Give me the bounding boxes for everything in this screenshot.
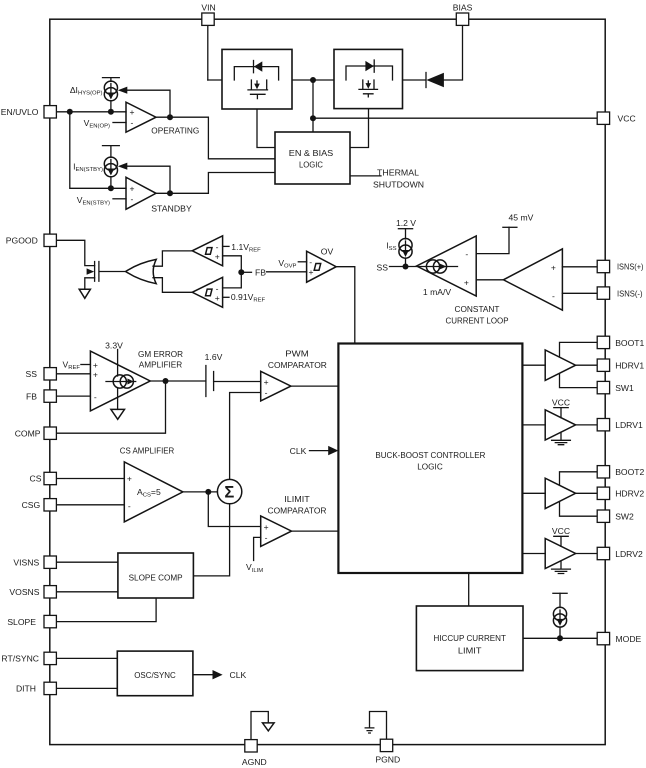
svg-text:CS: CS bbox=[30, 474, 42, 484]
pin COMP bbox=[15, 427, 57, 439]
svg-text:SS: SS bbox=[377, 262, 389, 272]
body diode D2 inside Q2 bbox=[346, 60, 393, 80]
label EN & BIAS LOGIC bbox=[289, 148, 334, 169]
pin BIAS bbox=[453, 3, 473, 26]
svg-text:LOGIC: LOGIC bbox=[417, 461, 443, 471]
pass switch Q1 box bbox=[222, 49, 292, 109]
pin PGND bbox=[375, 739, 400, 764]
wire: SW1 pin to HDRV1 driver bottom bbox=[560, 374, 599, 388]
ground: LDRV1 driver bbox=[552, 432, 571, 444]
svg-text:HICCUP CURRENT: HICCUP CURRENT bbox=[433, 633, 506, 643]
svg-text:ILIMIT: ILIMIT bbox=[284, 494, 310, 504]
svg-text:1 mA/V: 1 mA/V bbox=[423, 287, 451, 297]
wire: pass switch Q2 box to EN & BIAS logic bbox=[350, 109, 369, 148]
svg-text:AGND: AGND bbox=[242, 757, 267, 767]
pin SLOPE bbox=[7, 615, 56, 627]
pin DITH bbox=[16, 682, 56, 694]
label ILIMIT COMPARATOR bbox=[268, 494, 327, 515]
node: VIN/VCC rail junction bbox=[310, 77, 316, 83]
svg-text:COMPARATOR: COMPARATOR bbox=[268, 505, 327, 515]
wire: EN/UVLO pin to OPERATING comparator + input bbox=[56, 111, 126, 113]
wire: standby feedback to I_EN(STBY) source bbox=[127, 166, 171, 193]
node: CS amp output junction bbox=[205, 489, 211, 495]
svg-text:VILIM: VILIM bbox=[246, 562, 263, 574]
svg-text:OPERATING: OPERATING bbox=[151, 126, 199, 136]
block HICCUP CURRENT LIMIT bbox=[416, 606, 523, 671]
svg-text:LOGIC: LOGIC bbox=[299, 160, 323, 170]
svg-text:OV: OV bbox=[321, 246, 334, 256]
svg-text:MODE: MODE bbox=[616, 634, 642, 644]
wire: 45 mV reference into constant current loop - input bbox=[476, 227, 509, 253]
wire: hiccup current limit to MODE pin bbox=[523, 637, 598, 639]
comparator STANDBY bbox=[126, 177, 156, 209]
wire: controller logic to HDRV1 driver input bbox=[522, 364, 545, 366]
supply bar: MODE pull-up source bbox=[553, 592, 567, 594]
pin SS bbox=[26, 368, 57, 380]
svg-text:BUCK-BOOST CONTROLLER: BUCK-BOOST CONTROLLER bbox=[375, 450, 485, 460]
pin MODE bbox=[597, 632, 641, 644]
wire: FB net label to OV comparator + input bbox=[267, 271, 307, 273]
svg-text:VOSNS: VOSNS bbox=[9, 587, 39, 597]
wire: HDRV1 driver output to HDRV1 pin bbox=[576, 364, 599, 366]
svg-text:-: - bbox=[128, 501, 131, 511]
node: SS net junction bbox=[403, 264, 409, 270]
wire: error amp output to 1.6V offset bbox=[150, 380, 206, 382]
pin VCC bbox=[597, 112, 635, 124]
svg-text:VISNS: VISNS bbox=[13, 557, 39, 567]
wire: SS pin to error amp + input bbox=[56, 373, 90, 375]
svg-text:0.91VREF: 0.91VREF bbox=[231, 292, 266, 304]
svg-text:1.6V: 1.6V bbox=[205, 352, 223, 362]
ground: LDRV2 driver bbox=[552, 561, 571, 574]
current source I_SS bbox=[399, 239, 412, 259]
svg-text:COMP: COMP bbox=[15, 429, 41, 439]
wire: controller logic bottom to hiccup current limit bbox=[468, 573, 470, 606]
wire: comparator + input down to FB node bbox=[223, 256, 242, 272]
wire: PGOOD MOSFET gate lead from OR gate bbox=[99, 271, 125, 273]
ground: PGOOD MOSFET source bbox=[79, 289, 90, 298]
svg-text:CSG: CSG bbox=[22, 500, 41, 510]
wire: OR gate lower input from 0.91Vref comparator output bbox=[153, 278, 192, 293]
svg-text:+: + bbox=[130, 184, 135, 194]
ground: AGND analog ground symbol bbox=[263, 723, 275, 731]
MOSFET symbol Q1 bbox=[248, 80, 268, 99]
block EN & BIAS LOGIC bbox=[275, 132, 350, 184]
wire: VIN rail through pass switches to BIAS diode bbox=[208, 79, 426, 81]
svg-text:CURRENT LOOP: CURRENT LOOP bbox=[446, 315, 509, 325]
op-amp U3 CS AMPLIFIER bbox=[124, 462, 183, 522]
svg-text:+: + bbox=[464, 277, 469, 287]
node: standby output junction bbox=[167, 190, 173, 196]
node: VCC branch junction bbox=[310, 115, 316, 121]
svg-text:FB: FB bbox=[255, 267, 266, 277]
wire: 0.91Vref stub on comparator + input bbox=[223, 296, 229, 298]
svg-text:PGND: PGND bbox=[375, 755, 400, 765]
wire: CSG pin to CS amplifier - input bbox=[56, 504, 124, 506]
svg-text:FB: FB bbox=[26, 391, 37, 401]
ground: PGND power ground symbol bbox=[365, 728, 374, 733]
node: operating output junction bbox=[167, 114, 173, 120]
svg-text:ISNS(+): ISNS(+) bbox=[617, 262, 644, 272]
pin CSG bbox=[22, 499, 57, 511]
pin SW1 bbox=[597, 381, 634, 393]
wire: 1.1Vref stub on comparator - input bbox=[223, 245, 229, 247]
svg-text:VEN(STBY): VEN(STBY) bbox=[77, 195, 110, 207]
node: MODE pull-up junction bbox=[557, 635, 563, 641]
label BUCK-BOOST CONTROLLER LOGIC bbox=[375, 450, 485, 472]
svg-text:SS: SS bbox=[26, 369, 38, 379]
buffer driver HDRV2 bbox=[545, 478, 575, 508]
wire: V_EN(OP) stub to OPERATING - input bbox=[113, 122, 126, 124]
svg-text:VCC: VCC bbox=[552, 526, 570, 536]
wire: OV comparator output to controller logic top bbox=[336, 267, 355, 343]
wire: BOOT2 pin to HDRV2 driver top bbox=[560, 472, 599, 485]
wire: PGOOD MOSFET source to ground bbox=[85, 278, 95, 290]
svg-text:ISNS(-): ISNS(-) bbox=[617, 288, 643, 298]
svg-text:CLK: CLK bbox=[230, 670, 247, 680]
svg-text:-: - bbox=[216, 283, 219, 293]
svg-text:THERMAL: THERMAL bbox=[377, 168, 419, 178]
svg-text:LDRV1: LDRV1 bbox=[615, 420, 643, 430]
block OSC/SYNC bbox=[117, 651, 193, 696]
wire: PGND pin hook to power ground symbol bbox=[370, 712, 387, 740]
ground: error amplifier bbox=[111, 409, 125, 419]
current source Delta-I_HYS(OP) bbox=[103, 78, 120, 112]
wire: pass switch Q1 box to EN & BIAS logic bbox=[257, 109, 275, 148]
pin ISNS(+) bbox=[597, 260, 643, 272]
label GM ERROR AMPLIFIER bbox=[138, 349, 183, 370]
wire: LDRV1 driver output to LDRV1 pin bbox=[576, 424, 599, 426]
svg-text:45 mV: 45 mV bbox=[509, 213, 534, 223]
svg-text:LDRV2: LDRV2 bbox=[615, 549, 643, 559]
wire: STANDBY output to EN & BIAS logic bbox=[156, 173, 275, 194]
svg-text:-: - bbox=[131, 194, 134, 204]
wire: CS amp output branch to ILIMIT comparator + input bbox=[208, 492, 260, 527]
arrowhead: OSC/SYNC CLK output bbox=[213, 670, 223, 679]
wire: BOOT1 pin to HDRV1 driver top bbox=[560, 342, 599, 356]
svg-text:SW2: SW2 bbox=[615, 512, 634, 522]
wire: EN/UVLO down-branch to STANDBY comparator + input bbox=[70, 112, 126, 189]
svg-text:+: + bbox=[551, 262, 556, 272]
svg-text:HDRV1: HDRV1 bbox=[615, 361, 644, 371]
pin HDRV2 bbox=[597, 487, 644, 499]
comparator PWM bbox=[261, 371, 291, 401]
wire: VISNS pin to slope comp bbox=[56, 561, 118, 563]
wire: ILIMIT comparator - input to V_ILIM bbox=[254, 537, 261, 560]
pin BOOT1 bbox=[597, 336, 644, 348]
body diode D1 inside Q1 bbox=[234, 61, 278, 81]
wire: OSC/SYNC CLK output bbox=[193, 674, 213, 676]
svg-text:-: - bbox=[94, 392, 97, 402]
wire: PGOOD pin to PGOOD MOSFET drain bbox=[56, 240, 94, 265]
supply bar: 45 mV bbox=[503, 226, 517, 228]
wire: THERMAL SHUTDOWN output from EN & BIAS logic bbox=[350, 175, 381, 177]
svg-text:+: + bbox=[215, 293, 220, 303]
label CONSTANT CURRENT LOOP bbox=[446, 304, 509, 326]
arrowhead: hysteresis feedback into Delta-I source bbox=[118, 87, 128, 94]
label PWM COMPARATOR bbox=[268, 348, 327, 370]
pass switch Q2 box bbox=[334, 49, 403, 108]
svg-text:-: - bbox=[131, 118, 134, 128]
PGOOD open-drain MOSFET Q3 bbox=[87, 262, 99, 282]
wire: CS amplifier output to summer bbox=[183, 491, 218, 493]
pin BOOT2 bbox=[597, 466, 644, 478]
wire: I_SS current source to SS node bbox=[405, 258, 407, 267]
wire: AGND pin hook to analog ground symbol bbox=[251, 712, 268, 740]
wire: 1.6V offset to PWM comparator + input bbox=[214, 381, 261, 383]
label THERMAL SHUTDOWN bbox=[373, 168, 424, 190]
wire: controller logic to LDRV2 driver input bbox=[522, 553, 545, 555]
wire: DITH pin to OSC/SYNC bbox=[56, 687, 117, 689]
label HICCUP CURRENT LIMIT bbox=[433, 633, 506, 655]
current source gm 1 mA/V (constant current loop) bbox=[426, 260, 446, 273]
svg-text:Σ: Σ bbox=[224, 484, 234, 502]
svg-text:CLK: CLK bbox=[290, 446, 307, 456]
summer node (sigma) bbox=[217, 479, 241, 503]
wire: 1.2V supply into I_SS current source bbox=[405, 229, 407, 239]
wire: LDRV2 driver output to LDRV2 pin bbox=[576, 553, 599, 555]
svg-text:GM ERROR: GM ERROR bbox=[138, 349, 183, 359]
supply bar: 1.2 V bbox=[398, 228, 412, 230]
wire: ISNS(-) pin to diff amp - input bbox=[562, 292, 598, 294]
pin RT/SYNC bbox=[1, 652, 56, 664]
svg-text:-: - bbox=[216, 242, 219, 252]
wire: operating hysteresis feedback to current source bbox=[127, 90, 171, 117]
comparator OV bbox=[307, 251, 337, 282]
pin ISNS(-) bbox=[597, 287, 642, 299]
buffer driver HDRV1 bbox=[545, 350, 575, 380]
svg-text:EN/UVLO: EN/UVLO bbox=[1, 107, 39, 117]
comparator ILIMIT bbox=[261, 516, 292, 547]
svg-text:+: + bbox=[127, 474, 132, 484]
svg-text:-: - bbox=[552, 291, 555, 301]
op-amp U4 constant current loop gm amp bbox=[417, 236, 477, 296]
wire: FB pin to error amp - input bbox=[56, 395, 90, 397]
pin AGND bbox=[242, 740, 267, 767]
wire: VOSNS pin to slope comp bbox=[56, 591, 118, 593]
svg-text:SW1: SW1 bbox=[615, 383, 634, 393]
pin LDRV2 bbox=[597, 547, 643, 559]
pin LDRV1 bbox=[597, 419, 643, 431]
op-amp U5 ISNS differential amplifier bbox=[503, 249, 562, 310]
supply wire: 3.3V into error amp current source bbox=[117, 350, 119, 377]
supply VCC for LDRV2 driver bbox=[554, 536, 568, 546]
buffer driver LDRV2 bbox=[545, 538, 575, 568]
svg-text:VEN(OP): VEN(OP) bbox=[84, 118, 110, 130]
svg-text:VOVP: VOVP bbox=[278, 258, 296, 270]
wire: switch-rail junction down to EN & BIAS logic top bbox=[312, 80, 314, 132]
pin SW2 bbox=[597, 510, 634, 522]
wire: V_REF stub to error amp + input bbox=[81, 364, 91, 366]
svg-text:HDRV2: HDRV2 bbox=[615, 489, 644, 499]
current source I_EN(STBY) bbox=[103, 146, 120, 189]
comparator OPERATING bbox=[126, 102, 156, 132]
svg-text:-: - bbox=[265, 388, 268, 398]
svg-text:+: + bbox=[93, 360, 98, 370]
wire: MODE current source supply stem bbox=[559, 593, 561, 607]
svg-text:ACS=5: ACS=5 bbox=[137, 487, 161, 499]
pin EN/UVLO bbox=[1, 106, 57, 118]
current source MODE pull-up bbox=[553, 607, 566, 627]
svg-text:CONSTANT: CONSTANT bbox=[455, 304, 501, 314]
current source gm (error amplifier) bbox=[106, 375, 136, 388]
pin FB bbox=[26, 390, 56, 402]
wire: CLK into controller logic bbox=[310, 450, 330, 452]
diode D3 to BIAS bbox=[426, 73, 444, 88]
wire: VCC rail to VCC pin bbox=[313, 117, 598, 119]
svg-text:-: - bbox=[265, 532, 268, 542]
op-amp U2 GM ERROR AMPLIFIER bbox=[90, 351, 150, 411]
comparator 1.1Vref overvoltage bbox=[192, 236, 222, 266]
svg-text:PWM: PWM bbox=[285, 348, 309, 358]
svg-text:ISS: ISS bbox=[386, 241, 396, 253]
svg-text:VCC: VCC bbox=[552, 397, 570, 407]
svg-text:PGOOD: PGOOD bbox=[6, 236, 38, 246]
block BUCK-BOOST CONTROLLER LOGIC bbox=[338, 344, 522, 574]
svg-text:CS AMPLIFIER: CS AMPLIFIER bbox=[120, 445, 175, 455]
wire: COMP pin to error amp output bbox=[56, 381, 165, 433]
wire: error amp internal source to ground bbox=[117, 388, 119, 409]
wire: CS pin to CS amplifier + input bbox=[56, 478, 124, 480]
svg-text:OSC/SYNC: OSC/SYNC bbox=[134, 670, 176, 680]
capacitor/battery 1.6V offset bbox=[206, 366, 214, 397]
svg-text:+: + bbox=[130, 107, 135, 117]
wire: VIN pin stem down to pass-switch rail bbox=[207, 25, 209, 80]
wire: FB node to FB net label bbox=[241, 271, 251, 273]
svg-text:1.2 V: 1.2 V bbox=[396, 218, 416, 228]
OR gate U1 (PGOOD logic) bbox=[126, 259, 157, 283]
wire: OR gate upper input from 1.1Vref comparator output bbox=[153, 251, 192, 266]
svg-text:SLOPE: SLOPE bbox=[7, 617, 36, 627]
svg-text:EN & BIAS: EN & BIAS bbox=[289, 148, 334, 158]
node: EN/UVLO branch junction bbox=[67, 109, 73, 115]
wire: MODE current source to MODE net bbox=[559, 627, 561, 638]
wire: controller logic to LDRV1 driver input bbox=[522, 424, 545, 426]
svg-text:VREF: VREF bbox=[62, 359, 80, 371]
svg-text:SLOPE COMP: SLOPE COMP bbox=[129, 572, 183, 582]
pin VOSNS bbox=[9, 586, 56, 598]
MOSFET symbol Q2 bbox=[359, 80, 378, 97]
node: standby source tap junction bbox=[108, 185, 114, 191]
wire: OPERATING output to EN & BIAS logic bbox=[156, 117, 275, 159]
svg-text:1.1VREF: 1.1VREF bbox=[231, 242, 261, 254]
comparator 0.91Vref undervoltage bbox=[192, 277, 222, 307]
svg-text:BIAS: BIAS bbox=[453, 3, 473, 13]
svg-text:COMPARATOR: COMPARATOR bbox=[268, 360, 327, 370]
svg-text:+: + bbox=[264, 522, 269, 532]
wire: BIAS diode anode to BIAS pin stem bbox=[444, 25, 463, 80]
pin HDRV1 bbox=[597, 359, 644, 371]
arrowhead: CLK into controller logic bbox=[328, 446, 338, 455]
svg-text:DITH: DITH bbox=[16, 684, 36, 694]
svg-text:+: + bbox=[309, 267, 314, 277]
arrowhead: gm stage output arrow bbox=[439, 263, 447, 269]
wire: RT/SYNC pin to OSC/SYNC bbox=[56, 657, 117, 659]
wire: V_EN(STBY) stub to STANDBY - input bbox=[113, 198, 126, 200]
svg-text:VIN: VIN bbox=[201, 3, 215, 13]
wire: SW2 pin to HDRV2 driver bottom bbox=[560, 502, 599, 516]
node: hysteresis source tap junction bbox=[108, 109, 114, 115]
supply VCC for LDRV1 driver bbox=[554, 408, 568, 418]
block SLOPE COMP bbox=[118, 553, 193, 598]
pin VIN bbox=[201, 3, 215, 26]
wire: summer bottom to slope comp output bbox=[193, 504, 229, 576]
svg-text:3.3V: 3.3V bbox=[105, 341, 123, 351]
wire: 0.91Vref comparator - input up to FB node bbox=[223, 272, 242, 288]
pin CS bbox=[30, 472, 57, 484]
svg-text:BOOT2: BOOT2 bbox=[615, 467, 644, 477]
wire: ISNS diff amp output to CC loop + input bbox=[476, 279, 503, 281]
wire: SS net label through gm stage into CC amp bbox=[390, 266, 458, 268]
svg-text:STANDBY: STANDBY bbox=[151, 204, 192, 214]
svg-text:LIMIT: LIMIT bbox=[458, 645, 482, 655]
buffer driver LDRV1 bbox=[545, 410, 575, 440]
wire: PWM comparator output to controller logic bbox=[291, 385, 339, 387]
svg-text:+: + bbox=[215, 252, 220, 262]
wire: ISNS(+) pin to diff amp + input bbox=[562, 266, 598, 268]
svg-text:VCC: VCC bbox=[618, 113, 636, 123]
wire: controller logic to HDRV2 driver input bbox=[522, 492, 545, 494]
wire: SLOPE pin to slope comp bottom bbox=[56, 598, 156, 622]
svg-text:+: + bbox=[264, 377, 269, 387]
svg-text:-: - bbox=[465, 249, 468, 259]
svg-text:-: - bbox=[309, 257, 312, 267]
wire: ILIMIT comparator output to controller logic bbox=[292, 530, 339, 532]
node: FB net junction bbox=[238, 269, 244, 275]
node: COMP / error amp output junction bbox=[163, 378, 169, 384]
svg-text:AMPLIFIER: AMPLIFIER bbox=[139, 360, 183, 370]
svg-text:RT/SYNC: RT/SYNC bbox=[1, 654, 39, 664]
svg-text:ΔIHYS(OP): ΔIHYS(OP) bbox=[70, 85, 103, 97]
wire: V_OVP stub to OV comparator - input bbox=[298, 261, 306, 263]
arrowhead: standby feedback into I_EN source bbox=[118, 163, 128, 170]
svg-text:+: + bbox=[93, 370, 98, 380]
pin PGOOD bbox=[6, 234, 57, 246]
svg-text:SHUTDOWN: SHUTDOWN bbox=[373, 180, 424, 190]
wire: PWM comparator - input from summer bbox=[230, 393, 261, 480]
svg-text:BOOT1: BOOT1 bbox=[615, 338, 644, 348]
pin VISNS bbox=[13, 556, 56, 568]
svg-text:IEN(STBY): IEN(STBY) bbox=[73, 162, 103, 174]
wire: HDRV2 driver output to HDRV2 pin bbox=[576, 492, 599, 494]
